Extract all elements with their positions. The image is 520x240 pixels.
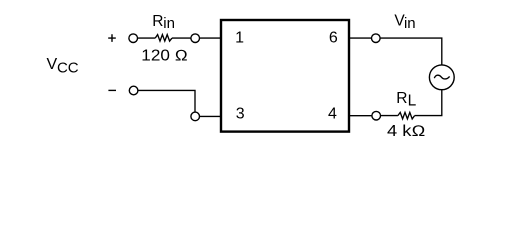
wire circle-to-pin3 <box>200 115 222 117</box>
terminal plus sign <box>108 34 116 42</box>
wire RL-to-circle <box>381 115 398 117</box>
svg-text:4 kΩ: 4 kΩ <box>387 123 426 140</box>
svg-text:1: 1 <box>235 29 244 46</box>
wire circle-to-pin1 <box>200 37 222 39</box>
svg-text:4: 4 <box>328 106 337 123</box>
wire circle-to-source-top <box>380 38 442 65</box>
svg-text:3: 3 <box>236 106 245 123</box>
wire plus-to-Rin <box>138 37 156 39</box>
svg-text:RL: RL <box>396 90 416 110</box>
terminal circle pin6 <box>372 34 381 43</box>
node circle pin3 <box>191 112 200 121</box>
terminal circle Rin-right <box>191 34 200 43</box>
wire circle-to-pin4 <box>349 115 372 117</box>
AC source <box>429 65 454 90</box>
IC box <box>221 20 349 132</box>
svg-text:Rin: Rin <box>152 13 175 32</box>
svg-text:120 Ω: 120 Ω <box>141 48 188 65</box>
terminal circle plus <box>129 34 138 43</box>
wire pin6-to-circle <box>349 37 372 39</box>
wire Rin-to-circle <box>172 37 191 39</box>
svg-text:Vin: Vin <box>394 13 415 32</box>
wire minus-run <box>138 90 195 112</box>
resistor RL <box>398 112 415 119</box>
resistor Rin <box>155 35 172 42</box>
terminal minus sign <box>108 89 116 91</box>
terminal circle pin4 <box>372 111 381 120</box>
terminal circle minus <box>129 86 138 95</box>
svg-text:6: 6 <box>329 29 338 46</box>
wire source-bottom-to-RL <box>415 90 442 116</box>
